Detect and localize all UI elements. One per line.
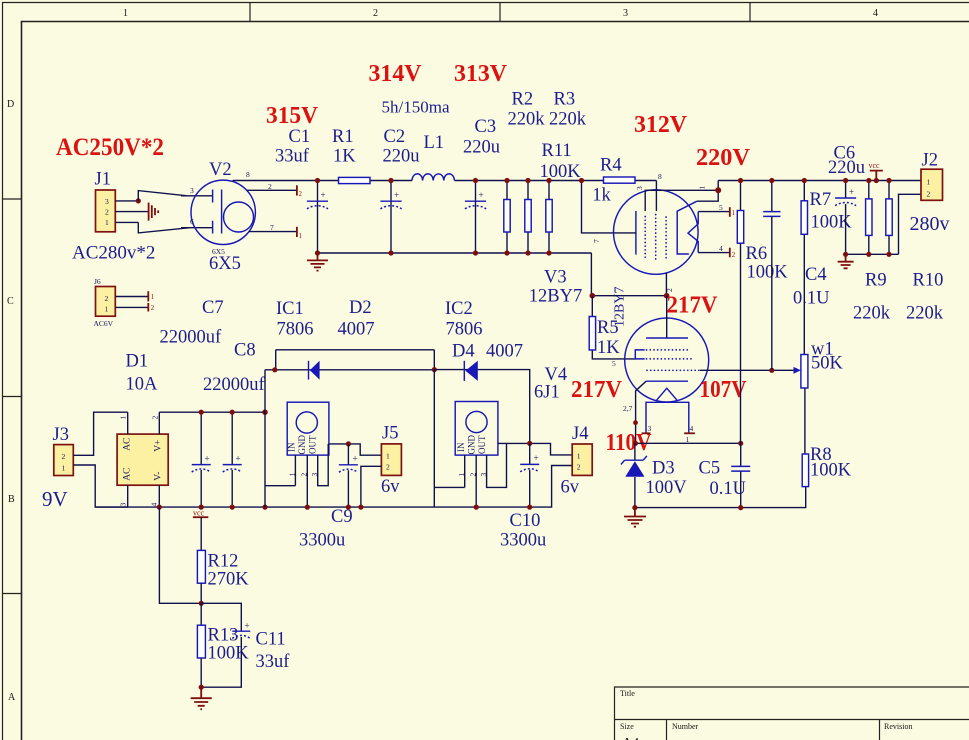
ground below C6: [838, 254, 854, 268]
resistor R10: [888, 181, 890, 255]
junction C8 at V- rail: [230, 505, 235, 510]
svg-text:2: 2: [577, 463, 581, 472]
junction C9 top: [346, 441, 351, 446]
svg-text:6X5: 6X5: [209, 254, 241, 274]
svg-text:3: 3: [310, 473, 319, 477]
junction R9 at bus: [866, 178, 871, 183]
svg-text:+: +: [353, 454, 358, 464]
svg-text:1: 1: [732, 209, 736, 217]
svg-text:AC: AC: [123, 468, 133, 481]
svg-text:6v: 6v: [381, 477, 400, 497]
wire C6 ground rail: [846, 253, 899, 255]
svg-text:R10: R10: [913, 271, 944, 291]
svg-text:50K: 50K: [811, 354, 844, 374]
tube V2 envelope: [191, 180, 255, 244]
junction C7 at V+ rail: [199, 410, 204, 415]
svg-text:R6: R6: [746, 244, 768, 264]
IC2 pin 2 leg: [475, 455, 477, 507]
capacitor C1: [317, 181, 319, 254]
resistor R8: [802, 454, 808, 487]
resistor R4: [604, 177, 636, 183]
svg-text:R13: R13: [208, 626, 239, 646]
bridge pin 1: [127, 412, 129, 434]
bridge rectifier D1: [117, 434, 168, 485]
junction C4 to wiper wire: [769, 368, 774, 373]
junction R6 at bus: [738, 178, 743, 183]
svg-text:5: 5: [719, 203, 723, 212]
capacitor C2: [390, 181, 392, 254]
svg-text:R4: R4: [600, 156, 622, 176]
wire IC2 input riser x435: [434, 370, 464, 508]
svg-text:100K: 100K: [747, 263, 789, 283]
svg-text:vcc: vcc: [869, 161, 881, 170]
svg-text:5: 5: [612, 359, 616, 368]
svg-text:IC1: IC1: [276, 299, 304, 319]
svg-text:R9: R9: [865, 271, 887, 291]
svg-text:2: 2: [105, 208, 109, 217]
svg-text:OUT: OUT: [308, 435, 318, 454]
tube V2 cathode bars: [212, 190, 214, 234]
svg-text:AC: AC: [123, 438, 133, 451]
bridge pin 4: [158, 485, 160, 507]
tube V3 cathode bar: [635, 211, 637, 255]
junction bridge V- at rail: [157, 505, 162, 510]
svg-text:100K: 100K: [208, 644, 250, 664]
svg-text:Number: Number: [672, 722, 699, 731]
svg-text:12BY7: 12BY7: [529, 287, 582, 307]
wire filter ground bus: [318, 252, 592, 254]
wire R12 to junction: [200, 583, 202, 603]
svg-text:AC250V*2: AC250V*2: [56, 134, 164, 161]
svg-text:1: 1: [151, 293, 155, 301]
tube V3 heater top lead: [698, 211, 730, 213]
svg-text:2: 2: [373, 8, 378, 19]
connector J1: [96, 190, 116, 232]
tube V2 plate: [221, 190, 223, 234]
resistor R13: [200, 603, 202, 625]
svg-text:2: 2: [151, 304, 155, 312]
junction IC1 feed at V+ rail: [262, 409, 268, 415]
wire V4 grid to w1 wiper: [700, 369, 795, 371]
resistor R5: [592, 296, 635, 359]
tube V3 grid1 wire: [645, 190, 718, 211]
tube V3 envelope: [614, 190, 699, 275]
svg-text:220u: 220u: [463, 138, 500, 158]
svg-text:2: 2: [300, 473, 309, 477]
wire D2 bypass top: [276, 350, 435, 370]
svg-text:C8: C8: [234, 341, 256, 361]
capacitor C5: [740, 443, 742, 507]
tube V3 plate element: [677, 201, 697, 254]
resistor R3: [548, 181, 550, 254]
svg-text:100K: 100K: [540, 162, 582, 182]
svg-text:1: 1: [119, 416, 128, 420]
svg-text:V-: V-: [154, 472, 164, 481]
junction dots on filter ground bus: [315, 250, 320, 255]
wire J1-1 to V2 pin7: [138, 222, 212, 233]
svg-text:2,7: 2,7: [623, 404, 633, 413]
svg-text:J4: J4: [572, 424, 588, 444]
svg-text:C1: C1: [289, 127, 311, 147]
tube V4 cathode exit wire: [636, 381, 647, 443]
svg-text:R12: R12: [208, 552, 239, 572]
svg-text:2: 2: [386, 463, 390, 472]
svg-text:C: C: [7, 296, 14, 307]
svg-text:2: 2: [105, 294, 109, 303]
svg-text:7806: 7806: [446, 320, 483, 340]
wire J3 pin1 to bridge AC2: [73, 465, 127, 507]
capacitor C10: [529, 443, 531, 507]
svg-text:D3: D3: [652, 459, 675, 479]
svg-text:2: 2: [927, 190, 931, 199]
capacitor C7: [200, 412, 202, 507]
svg-text:3: 3: [190, 186, 194, 195]
junction J5 pin2 at rail: [358, 505, 363, 510]
earth ground at J1 pin2: [149, 203, 159, 221]
svg-text:+: +: [479, 190, 484, 200]
wire ground rail D3 C5 R8: [635, 487, 806, 508]
svg-text:314V: 314V: [369, 60, 422, 87]
svg-text:D4: D4: [452, 342, 475, 362]
regulator IC1: [287, 402, 329, 455]
pin tick V3 heater top: [729, 207, 731, 217]
junction R9 at rail: [866, 252, 871, 257]
junction at V4 plate node: [664, 293, 670, 299]
connector J5: [381, 444, 401, 476]
ground below D3: [624, 508, 646, 527]
junction R7 at bus: [802, 178, 807, 183]
pin J1-2: [115, 211, 148, 213]
junction node B: [432, 367, 437, 372]
resistor R9: [868, 181, 870, 255]
regulator IC2: [455, 402, 498, 456]
junction at R5 top: [590, 293, 596, 299]
junction node A: [272, 367, 277, 372]
connector J4: [572, 444, 592, 475]
svg-text:6v: 6v: [561, 478, 580, 498]
junction on cathode wire: [633, 420, 638, 425]
svg-text:220k: 220k: [508, 110, 546, 130]
junction V3 plate node: [715, 187, 721, 193]
svg-text:3: 3: [623, 8, 628, 19]
capacitor C11: [201, 603, 241, 687]
svg-text:5h/150ma: 5h/150ma: [382, 97, 450, 116]
wire 110V rail: [636, 442, 741, 444]
svg-text:+: +: [245, 621, 250, 631]
svg-text:220u: 220u: [828, 158, 865, 178]
wire J1-3 to V2 pin3: [138, 191, 212, 201]
svg-text:1: 1: [386, 452, 390, 461]
svg-text:3300u: 3300u: [299, 531, 345, 551]
svg-text:IN: IN: [287, 442, 297, 452]
svg-text:4: 4: [690, 424, 694, 433]
wire J5 pin2: [361, 466, 382, 507]
svg-text:B: B: [8, 494, 15, 505]
svg-text:IN: IN: [456, 442, 466, 452]
svg-text:220V: 220V: [696, 144, 750, 171]
svg-text:vcc: vcc: [193, 509, 205, 518]
resistor R12: [197, 550, 205, 583]
junction x265 at V- rail: [262, 505, 267, 510]
svg-text:280v: 280v: [910, 213, 950, 235]
svg-text:4: 4: [873, 8, 878, 19]
svg-text:C3: C3: [475, 117, 497, 137]
svg-text:2: 2: [732, 251, 736, 259]
svg-text:Title: Title: [620, 689, 635, 698]
junction V4 cathode at 110V rail: [633, 441, 638, 446]
svg-text:217V: 217V: [667, 292, 718, 319]
svg-text:J5: J5: [382, 424, 398, 444]
svg-text:1K: 1K: [333, 147, 356, 167]
svg-text:+: +: [534, 453, 539, 463]
svg-text:3: 3: [648, 424, 652, 433]
tube V2 heater circle: [224, 202, 254, 232]
svg-text:R2: R2: [512, 90, 534, 110]
svg-text:J2: J2: [922, 151, 938, 171]
resistor R7: [803, 181, 805, 355]
capacitor C6: [845, 181, 847, 255]
svg-text:+: +: [205, 454, 210, 464]
svg-text:4007: 4007: [338, 320, 375, 340]
svg-text:C9: C9: [331, 507, 353, 527]
svg-text:10A: 10A: [126, 375, 159, 395]
capacitor C3: [475, 181, 477, 254]
svg-text:C2: C2: [384, 127, 406, 147]
diode D2: [308, 361, 310, 380]
potentiometer w1: [801, 355, 808, 389]
svg-text:+: +: [394, 190, 399, 200]
pin V2-7 lead: [249, 231, 297, 233]
IC2 pin 1 leg: [464, 455, 466, 487]
svg-text:4: 4: [719, 244, 723, 253]
svg-text:1: 1: [105, 305, 109, 314]
junction R10 at bus: [886, 178, 891, 183]
wire J2 pin2 route: [899, 194, 922, 254]
svg-text:33uf: 33uf: [275, 147, 310, 167]
svg-text:0.1U: 0.1U: [793, 289, 830, 309]
wire V+ rail: [159, 411, 265, 413]
svg-text:GND: GND: [467, 435, 477, 455]
svg-text:V+: V+: [154, 440, 164, 452]
svg-text:C4: C4: [805, 265, 827, 285]
svg-text:2: 2: [268, 182, 272, 191]
svg-text:L1: L1: [424, 133, 445, 153]
svg-text:100K: 100K: [810, 461, 852, 481]
wire bus to V3 grid drop: [582, 181, 615, 233]
svg-text:1: 1: [577, 452, 581, 461]
junction R10 at rail: [886, 252, 891, 257]
svg-text:3300u: 3300u: [500, 531, 546, 551]
svg-text:J6: J6: [94, 277, 101, 286]
wire D4 run: [434, 370, 529, 444]
svg-text:+: +: [849, 187, 854, 197]
wire w1 to R8: [804, 388, 806, 454]
svg-text:3: 3: [635, 186, 644, 190]
svg-text:22000uf: 22000uf: [203, 375, 266, 395]
svg-text:1: 1: [288, 473, 297, 477]
pin tick J6 bottom: [147, 303, 149, 312]
resistor R11: [506, 181, 508, 254]
svg-text:R7: R7: [810, 190, 832, 210]
svg-text:D1: D1: [126, 352, 149, 372]
pin tick J6 top: [147, 291, 149, 301]
svg-text:9V: 9V: [42, 487, 68, 511]
junction J1-3: [136, 198, 141, 203]
tube V4 cathode bar: [646, 380, 688, 382]
wire R13 to ground node: [200, 658, 202, 687]
IC2 pin 3 leg: [487, 443, 507, 487]
pin tick V3 heater bottom: [729, 248, 731, 258]
svg-text:3: 3: [479, 473, 488, 477]
connector J6: [96, 287, 116, 317]
svg-text:R3: R3: [554, 90, 576, 110]
connector J3: [54, 445, 74, 476]
wire V3 pin8 drop from bus: [655, 181, 657, 212]
junction IC2 gnd at rail: [474, 505, 479, 510]
tube V4 heater bracket: [646, 402, 689, 433]
zener diode D3: [634, 443, 636, 507]
junction C9 at rail: [346, 505, 351, 510]
resistor R2: [527, 181, 529, 254]
pin tick V2-2: [296, 185, 298, 195]
wire V- bottom rail: [95, 466, 572, 508]
svg-text:7806: 7806: [277, 320, 314, 340]
svg-text:315V: 315V: [266, 102, 318, 129]
svg-text:107V: 107V: [700, 376, 747, 403]
IC1 pin 1 leg: [294, 455, 296, 486]
junction C10 top: [527, 441, 532, 446]
svg-text:1: 1: [927, 178, 931, 187]
svg-text:2: 2: [299, 190, 303, 198]
junction R6/C5 at 110V rail: [738, 441, 743, 446]
IC1 pin 2 leg: [306, 455, 308, 507]
svg-text:220k: 220k: [549, 110, 587, 130]
svg-text:220u: 220u: [383, 147, 420, 167]
tube V3 plate wire: [697, 181, 718, 202]
resistor R1: [339, 177, 371, 183]
wire IC1 input riser x265: [265, 370, 295, 507]
tube V3 heater: [688, 212, 698, 253]
tube V3 cathode lead: [614, 232, 636, 234]
pin J6-2 lead: [115, 296, 148, 298]
junction D3 at rail: [632, 505, 637, 510]
capacitor C9: [347, 444, 349, 507]
pin J1-3: [115, 200, 138, 202]
ground at C1: [307, 253, 328, 271]
svg-text:7: 7: [592, 239, 601, 243]
bridge pin 3: [127, 485, 129, 507]
svg-text:8: 8: [246, 170, 250, 179]
junction ground node: [199, 685, 204, 690]
svg-text:270K: 270K: [208, 570, 250, 590]
wire drop to 217V node: [590, 253, 592, 296]
junction dots on B+ bus: [315, 178, 320, 183]
svg-text:J3: J3: [53, 425, 69, 445]
svg-text:3: 3: [119, 503, 128, 507]
wire main B+ bus right section: [718, 180, 921, 182]
tube V4 grid bracket: [635, 350, 644, 359]
svg-text:2: 2: [151, 416, 160, 420]
svg-text:100V: 100V: [646, 478, 688, 498]
pin tick V2-7: [296, 227, 298, 237]
svg-text:C10: C10: [510, 511, 541, 531]
tube V4 plate bar: [646, 337, 688, 339]
svg-text:217V: 217V: [571, 376, 622, 403]
junction C6 at bus: [843, 178, 848, 183]
wire J3 pin2 to bridge AC1: [73, 412, 127, 455]
connector J2: [921, 169, 943, 200]
IC1 pin 3 leg: [318, 444, 329, 486]
svg-text:AC280v*2: AC280v*2: [72, 243, 155, 264]
svg-text:220k: 220k: [853, 304, 891, 324]
svg-text:1: 1: [698, 186, 707, 190]
junction C4 at bus: [769, 178, 774, 183]
junction C6 at rail: [843, 252, 848, 257]
svg-text:R11: R11: [542, 141, 572, 161]
tube V3 cathode pin2 lead: [665, 273, 667, 296]
junction C8 at V+ rail: [230, 410, 235, 415]
svg-text:D2: D2: [349, 298, 372, 318]
svg-text:33uf: 33uf: [256, 652, 291, 672]
pin tick V4 heater right: [684, 432, 695, 434]
svg-text:6: 6: [190, 217, 194, 226]
junction C5 at rail: [738, 505, 743, 510]
capacitor C8: [231, 412, 233, 507]
svg-text:V2: V2: [209, 160, 232, 180]
svg-text:1: 1: [105, 218, 109, 227]
svg-text:C5: C5: [699, 459, 721, 479]
svg-text:A4: A4: [622, 736, 639, 740]
svg-text:0.1U: 0.1U: [710, 479, 747, 499]
ground below R13: [191, 687, 212, 709]
wire sense branch to V- rail: [159, 507, 201, 603]
tube V4 grids dotted: [647, 350, 701, 370]
svg-text:A: A: [8, 692, 16, 703]
svg-text:6J1: 6J1: [534, 383, 560, 403]
pin J1-1: [115, 221, 138, 223]
wire IC2 out: [498, 443, 572, 455]
svg-text:2: 2: [469, 473, 478, 477]
junction divider node: [199, 601, 204, 606]
junction C7 at V- rail: [199, 505, 204, 510]
svg-text:1: 1: [123, 8, 128, 19]
svg-text:313V: 313V: [454, 60, 507, 87]
diode D4: [463, 361, 465, 381]
resistor R6: [740, 181, 742, 444]
svg-text:Size: Size: [620, 722, 634, 731]
wire IC1 out: [329, 444, 382, 455]
svg-text:R1: R1: [332, 127, 354, 147]
svg-text:GND: GND: [297, 435, 307, 455]
svg-text:1: 1: [457, 473, 466, 477]
svg-text:OUT: OUT: [477, 435, 487, 454]
tube V3 heater bottom lead: [698, 252, 730, 254]
svg-text:+: +: [321, 190, 326, 200]
wire main B+ bus left section: [233, 180, 657, 182]
junction C10 at rail: [527, 505, 532, 510]
tube V4 heater filament: [657, 388, 677, 400]
capacitor C4: [771, 181, 773, 371]
svg-text:4007: 4007: [486, 342, 523, 362]
svg-text:1: 1: [299, 232, 303, 240]
svg-text:3: 3: [105, 197, 109, 206]
inductor L1: [412, 174, 454, 181]
pin tick V4 heater left: [642, 432, 651, 434]
svg-text:Revision: Revision: [884, 722, 912, 731]
svg-text:22000uf: 22000uf: [160, 328, 223, 348]
wire VCC to R12: [200, 517, 202, 550]
svg-text:1K: 1K: [597, 338, 620, 358]
